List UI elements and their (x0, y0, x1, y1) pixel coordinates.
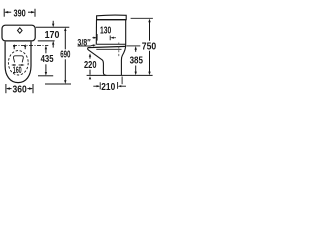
svg-text:390: 390 (14, 8, 26, 19)
svg-text:160: 160 (13, 64, 22, 75)
svg-text:750: 750 (142, 42, 157, 53)
svg-text:130: 130 (100, 25, 111, 36)
svg-text:220: 220 (84, 60, 97, 71)
svg-text:170: 170 (45, 30, 60, 41)
svg-text:385: 385 (130, 56, 144, 67)
svg-text:690: 690 (60, 49, 70, 60)
svg-text:435: 435 (41, 54, 54, 65)
svg-text:360: 360 (13, 84, 28, 95)
svg-text:210: 210 (101, 82, 115, 93)
svg-text:3/8″: 3/8″ (77, 37, 91, 47)
